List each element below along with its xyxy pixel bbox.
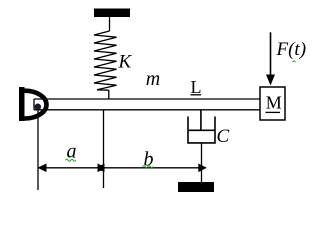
damper piston plate <box>188 129 215 131</box>
spring top connector wire <box>109 17 111 31</box>
svg-text:F(t): F(t) <box>276 39 307 60</box>
underline of L <box>191 94 202 96</box>
beam left end cap <box>33 99 35 110</box>
spring bottom connector wire <box>108 90 110 99</box>
damper cylinder cup <box>188 117 215 143</box>
svg-text:m: m <box>146 68 160 90</box>
mass box M <box>260 87 285 120</box>
underline of M <box>266 111 281 113</box>
force arrow head <box>266 75 275 86</box>
damper rod upper <box>200 110 202 131</box>
ground block <box>178 182 214 192</box>
spring K coil <box>94 31 117 90</box>
dimension line a <box>38 167 104 169</box>
dimension line b <box>104 167 206 169</box>
grammar squiggle under F(t) <box>293 61 296 62</box>
svg-text:M: M <box>266 93 282 113</box>
arrowhead a left <box>38 164 47 173</box>
arrowhead b right <box>198 164 207 173</box>
arrowhead a right <box>98 164 107 173</box>
wall bar of pivot <box>19 87 25 121</box>
svg-text:K: K <box>118 51 133 72</box>
damper rod lower <box>201 143 203 182</box>
svg-text:L: L <box>191 77 202 97</box>
beam bottom line <box>34 109 260 111</box>
arrowhead b left <box>96 164 105 173</box>
grammar squiggle under a <box>66 159 76 161</box>
pivot arc <box>25 91 47 119</box>
grammar squiggle under b <box>143 166 153 168</box>
svg-text:C: C <box>217 126 230 147</box>
force arrow F(t) shaft <box>270 32 272 76</box>
junction fill of bowtie <box>99 165 104 171</box>
fixed ceiling block <box>94 9 130 18</box>
pin of pivot <box>35 104 42 111</box>
extension line at spring <box>103 110 105 188</box>
beam top line <box>34 98 260 100</box>
extension line at pivot <box>37 111 39 191</box>
